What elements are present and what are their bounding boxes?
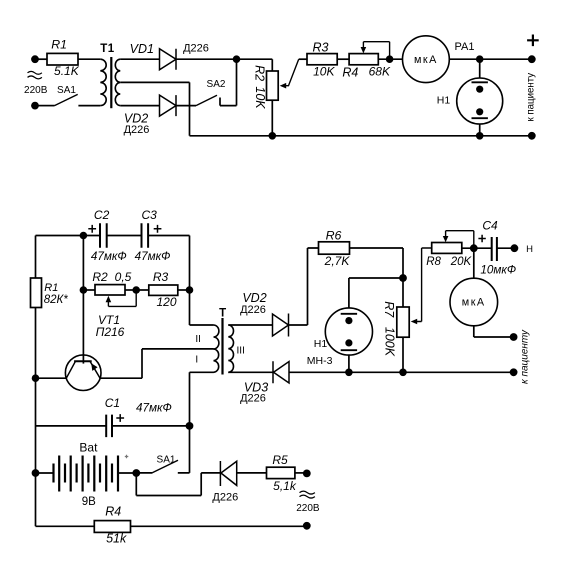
resistor R6 2,7K	[319, 229, 351, 268]
wire: H1 bottom to rail	[479, 124, 481, 136]
transformer T core	[221, 318, 223, 375]
svg-text:Д226: Д226	[240, 393, 266, 405]
svg-text:68K: 68K	[369, 65, 391, 79]
svg-text:I: I	[195, 355, 198, 366]
svg-text:47мкФ: 47мкФ	[136, 402, 172, 415]
wire: winding I bottom to rail	[190, 371, 214, 373]
potentiometer R4 68K	[342, 42, 391, 80]
wire: node A down to SA2 contact	[236, 59, 238, 105]
terminal: output plus	[528, 55, 536, 63]
svg-text:T1: T1	[100, 43, 115, 55]
wire: C2 to C3	[107, 235, 142, 237]
potentiometer R8 20K	[426, 231, 474, 268]
wire: rail to R4	[36, 525, 95, 527]
wire: PA1 to output + terminal	[449, 58, 532, 60]
neon lamp H1	[437, 78, 503, 124]
resistor R1 82K	[31, 278, 69, 308]
label plus	[527, 35, 539, 47]
wire: VD2 to SA2 pole	[176, 105, 196, 107]
svg-text:0,5: 0,5	[115, 270, 132, 284]
meter PA1 мкА	[403, 36, 475, 83]
terminal: patient upper	[510, 333, 518, 341]
switch SA2	[196, 79, 237, 106]
wire: R6 to node C	[350, 248, 404, 278]
svg-text:R6: R6	[326, 229, 342, 243]
wire: R2 bottom to rail	[271, 100, 273, 136]
wire: R5 to terminal	[295, 472, 307, 474]
diode VD1 Д226	[130, 42, 209, 70]
wire: node C to lamp H1	[349, 278, 403, 308]
svg-text:2,7K: 2,7K	[324, 254, 351, 268]
potentiometer R7 100K	[382, 248, 432, 357]
wire: winding III bottom to VD3	[228, 371, 273, 373]
node B junction	[476, 55, 484, 63]
junction: collector-rail	[32, 374, 40, 382]
junction: R4 wiper node	[386, 55, 394, 63]
wire: battery jog to charge diode	[136, 473, 220, 496]
svg-text:82К*: 82К*	[44, 294, 69, 306]
wire: C3 to right rail	[148, 235, 189, 237]
svg-text:Д226: Д226	[183, 42, 209, 54]
junction: battery right	[132, 469, 140, 477]
right rail lower segment	[178, 372, 190, 473]
svg-text:III: III	[237, 345, 245, 356]
bottom rail of top circuit	[190, 135, 532, 137]
svg-text:C2: C2	[94, 208, 110, 222]
wire: AC input top to R1	[39, 58, 48, 60]
svg-text:R1: R1	[44, 282, 58, 294]
AC symbol bottom	[300, 491, 315, 498]
wire: C4 to terminal	[497, 247, 515, 249]
svg-text:R7: R7	[382, 301, 396, 318]
transistor VT1 П216	[65, 290, 124, 391]
terminal: н output	[511, 244, 519, 252]
svg-text:мкА: мкА	[414, 54, 438, 66]
svg-text:51k: 51k	[106, 532, 127, 546]
capacitor C3 47мкФ	[135, 208, 171, 263]
svg-text:SA1: SA1	[157, 455, 176, 466]
svg-text:10K: 10K	[313, 65, 335, 79]
wire: collector to left rail	[36, 377, 67, 379]
junction: R2-R3 node	[132, 286, 140, 294]
svg-text:20K: 20K	[450, 256, 473, 268]
svg-text:PA1: PA1	[455, 41, 475, 53]
svg-text:T: T	[219, 308, 226, 320]
wire: node to meter	[473, 248, 475, 278]
svg-text:H1: H1	[314, 338, 328, 350]
svg-text:R1: R1	[51, 38, 67, 52]
svg-text:R4: R4	[342, 65, 358, 79]
diode VD2 Д226 bottom	[240, 291, 288, 337]
svg-text:220В: 220В	[296, 503, 320, 514]
junction: R7 on rail	[399, 369, 407, 377]
svg-text:Н: Н	[526, 244, 533, 255]
wire: R3 to R4	[337, 58, 349, 60]
svg-text:SA1: SA1	[57, 85, 76, 96]
svg-text:к пациенту: к пациенту	[526, 73, 537, 122]
junction: R3 right on rail	[186, 286, 194, 294]
junction: C1 right on rail	[186, 422, 194, 430]
node C junction	[399, 274, 407, 282]
svg-text:R5: R5	[272, 453, 288, 467]
wire: T1 center tap to bottom rail	[120, 82, 189, 135]
junction: R2 left	[80, 286, 88, 294]
AC source symbol	[28, 71, 42, 79]
left rail lower segment	[35, 308, 37, 527]
capacitor C4 10мкФ	[478, 219, 516, 277]
potentiometer R2 10K	[253, 59, 299, 109]
terminal: AC input bottom	[31, 102, 39, 110]
diode Д226 charger	[212, 461, 238, 504]
resistor R5 5,1k	[267, 453, 297, 493]
svg-text:Д226: Д226	[212, 492, 238, 504]
wire: diode to R5	[237, 472, 267, 474]
terminal: output bottom	[528, 132, 536, 140]
wire: R4 to meter PA1	[378, 58, 402, 60]
svg-text:C3: C3	[142, 208, 158, 222]
svg-text:П216: П216	[96, 325, 125, 339]
wire: node A to R2 top	[237, 59, 273, 71]
svg-text:R2: R2	[253, 65, 267, 81]
wire: C2 node down to R2	[82, 236, 84, 291]
junction: C2 left node	[80, 232, 88, 240]
svg-text:R8: R8	[426, 256, 441, 268]
resistor R4 51k	[94, 505, 130, 546]
transformer T winding I	[214, 349, 219, 372]
wire: secondary top to VD1	[120, 58, 159, 60]
svg-text:II: II	[195, 334, 201, 345]
transformer T1 core	[110, 57, 112, 108]
svg-text:9В: 9В	[82, 496, 96, 508]
svg-text:R2: R2	[92, 270, 108, 284]
svg-text:Д226: Д226	[124, 124, 150, 136]
potentiometer R2 0,5	[83, 270, 136, 306]
svg-text:R3: R3	[313, 40, 329, 54]
svg-text:Bat: Bat	[79, 441, 98, 455]
diode VD2 Д226	[124, 95, 176, 136]
terminal: patient lower	[510, 368, 518, 376]
wire: emitter to transformer tap	[100, 349, 213, 378]
svg-text:120: 120	[156, 295, 176, 309]
wire: H1 bottom to rail	[348, 355, 350, 372]
wire: R7 bottom to rail	[402, 337, 404, 372]
node A junction	[233, 55, 241, 63]
top rail to C2	[36, 235, 101, 237]
svg-text:220В: 220В	[24, 85, 48, 96]
svg-text:R3: R3	[153, 270, 169, 284]
svg-text:100K: 100K	[382, 327, 396, 357]
junction: H1 bottom	[476, 132, 484, 140]
svg-text:10мкФ: 10мкФ	[480, 264, 516, 277]
transformer T1 primary winding	[100, 59, 106, 105]
svg-text:5.1K: 5.1K	[54, 64, 80, 78]
svg-text:VD1: VD1	[130, 42, 154, 56]
wire: VD2 to R6	[289, 248, 319, 325]
wire: winding III top to VD2	[228, 324, 272, 326]
bottom patient rail	[289, 371, 514, 373]
svg-text:VD2: VD2	[242, 291, 266, 305]
capacitor C1 47мкФ	[36, 396, 190, 437]
junction: H1 on rail	[345, 369, 353, 377]
terminal: 220V charge input	[303, 470, 311, 478]
meter мкА bottom	[450, 278, 498, 326]
lamp H1 МН-3	[307, 308, 373, 367]
svg-text:Д226: Д226	[240, 304, 266, 316]
resistor R3 10K	[299, 40, 338, 78]
resistor R1 5.1K	[47, 38, 80, 78]
switch SA1	[39, 85, 101, 106]
svg-text:47мкФ: 47мкФ	[135, 250, 171, 263]
diode VD3 Д226	[240, 361, 289, 404]
transformer T1 secondary winding	[115, 59, 120, 105]
terminal: AC input top	[31, 55, 39, 63]
svg-text:к пациенту: к пациенту	[520, 329, 531, 384]
wire: R4 to return terminal	[131, 525, 307, 527]
wire: meter to patient terminal	[474, 326, 514, 337]
junction: R8 right node	[470, 244, 478, 252]
capacitor C2 47мкФ	[88, 208, 126, 263]
wire: R1 to T1 primary	[78, 58, 100, 60]
resistor R3 120	[136, 270, 189, 309]
wire: rail to winding II top	[190, 324, 214, 326]
svg-text:R4: R4	[105, 505, 121, 519]
wire: VD1 to node A	[176, 58, 237, 60]
svg-text:МН-3: МН-3	[307, 355, 333, 367]
svg-text:5,1k: 5,1k	[273, 479, 297, 493]
svg-text:C4: C4	[482, 219, 498, 233]
left rail upper segment	[35, 236, 37, 279]
transformer T winding III	[228, 325, 233, 372]
svg-text:47мкФ: 47мкФ	[91, 250, 127, 263]
svg-text:H1: H1	[437, 94, 451, 106]
terminal: 220V charge return	[303, 522, 311, 530]
battery Bat 9В	[36, 441, 137, 509]
transformer T winding II	[214, 325, 219, 349]
svg-text:мкА: мкА	[462, 297, 486, 309]
wire: secondary bottom to VD2	[120, 105, 159, 107]
junction: battery left on rail	[32, 469, 40, 477]
svg-text:10K: 10K	[253, 86, 267, 109]
junction: R2 bottom	[269, 132, 277, 140]
svg-text:SA2: SA2	[207, 79, 226, 90]
wire: R8 right to C4	[462, 247, 492, 249]
wire: node B to lamp H1	[479, 59, 481, 78]
switch SA1 bottom	[136, 455, 178, 473]
right rail upper segment	[189, 236, 191, 326]
svg-text:C1: C1	[105, 396, 120, 410]
